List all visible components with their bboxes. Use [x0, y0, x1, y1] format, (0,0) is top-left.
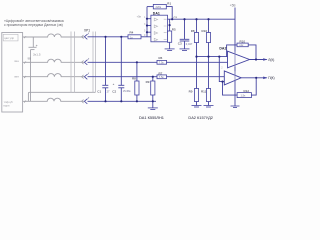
- wire C1 vertical upper: [105, 37, 107, 86]
- pin slash 3: [24, 76, 26, 78]
- svg-text:+: +: [113, 82, 115, 86]
- svg-text:DA2: DA2: [219, 47, 226, 51]
- junction output1-R11: [255, 58, 257, 60]
- ground supply bar 2: [233, 107, 237, 109]
- ground R9 bar 2: [194, 106, 199, 108]
- junction bus-R10: [207, 18, 209, 20]
- junction bus-C3: [183, 18, 185, 20]
- connector pin tick 1: [88, 33, 89, 35]
- junction bus-R8: [195, 18, 197, 20]
- resistor R10: [206, 33, 210, 43]
- inner frame (dial unit): [3, 34, 18, 41]
- junction R1-bus: [171, 18, 173, 20]
- pin slash 4: [24, 101, 26, 103]
- ground R11 bar 2: [206, 106, 211, 108]
- wire DA2.1 output: [250, 59, 267, 61]
- junction DA1 pin 3: [146, 24, 148, 26]
- battery GB1 positive plate: [29, 46, 37, 48]
- svg-text:+5В: +5В: [230, 4, 236, 8]
- ground R11 bar 1: [204, 105, 214, 107]
- wire line3 with choke L3: [23, 74, 84, 77]
- wire C2 vertical upper: [120, 37, 122, 86]
- wire line2 blue segment a: [88, 61, 158, 63]
- svg-text:DA1 К555ЛН1: DA1 К555ЛН1: [139, 115, 164, 120]
- wire R11 feedback right lead: [248, 45, 256, 60]
- ground R3 bar 1: [148, 107, 158, 109]
- wire line3 blue segment b to DA2.2: [167, 76, 225, 78]
- wire C2 vertical lower: [120, 88, 122, 102]
- wire DA1 input bus vertical: [146, 7, 148, 37]
- resistor R1: [153, 4, 166, 8]
- junction line4-C2: [120, 100, 122, 102]
- svg-text:R12: R12: [244, 89, 250, 93]
- junction line2-R2: [136, 61, 138, 63]
- svg-text:R8: R8: [191, 29, 195, 33]
- junction rail-R10: [207, 56, 209, 58]
- svg-text:9В: 9В: [28, 57, 32, 61]
- wire divider column R8-R9: [196, 19, 198, 105]
- svg-text:с прожектором передачи Данных: с прожектором передачи Данных (зв): [4, 23, 63, 27]
- svg-text:220к: 220к: [156, 5, 162, 9]
- svg-text:C2: C2: [112, 89, 116, 93]
- wire line1 blue segment a: [88, 36, 129, 38]
- svg-text:R10: R10: [240, 40, 246, 44]
- svg-text:R1: R1: [167, 1, 171, 5]
- svg-text:+5в: +5в: [137, 15, 142, 19]
- wire line4 blue segment: [88, 100, 157, 102]
- connector XP1 mating contact 3: [82, 75, 84, 79]
- svg-text:П(К): П(К): [268, 76, 274, 80]
- pin slash 1: [24, 36, 26, 38]
- svg-text:лин: лин: [14, 59, 19, 63]
- wire R12 feedback left lead: [223, 82, 238, 96]
- resistor R5: [168, 31, 172, 42]
- ground C3 bar 1: [180, 48, 190, 50]
- svg-text:R7: R7: [159, 71, 163, 75]
- junction line3-R3: [152, 76, 154, 78]
- wire +5V through DA2.2: [234, 71, 236, 80]
- resistor R6: [157, 60, 167, 64]
- wire DA1 pin stub 9: [147, 36, 151, 38]
- output arrow right channel: [263, 77, 267, 80]
- DA1 gate element 4: [154, 38, 166, 41]
- junction line4-R2: [136, 100, 138, 102]
- connector XP1 contact 2: [84, 60, 87, 65]
- ground R3 bar 2: [150, 108, 155, 110]
- op-amp DA2.1: [228, 51, 250, 68]
- battery GB1 negative plate: [31, 49, 35, 51]
- svg-text:DA2 К157УД2: DA2 К157УД2: [188, 115, 213, 120]
- wire C3 bottom lead: [184, 41, 186, 49]
- wire supply bus: [168, 18, 236, 20]
- wire bias rail: [197, 56, 228, 58]
- wire DA1 pin stub 5: [147, 31, 151, 33]
- cable shield screen 2 line b: [95, 32, 97, 93]
- junction output2-R12: [255, 77, 257, 79]
- wire R12 feedback right lead: [251, 78, 256, 95]
- junction DA1 pin 5: [146, 31, 148, 33]
- connector XP1 contact 4: [84, 99, 87, 104]
- wire C3 top lead: [184, 19, 186, 39]
- ground supply bar 1: [231, 105, 240, 107]
- junction DA1 output pin 2: [169, 24, 171, 26]
- capacitor C2 plate top: [118, 84, 124, 86]
- svg-text:0,047: 0,047: [186, 42, 193, 46]
- svg-text:цап упр: цап упр: [4, 36, 14, 40]
- ground R9 bar 1: [192, 105, 202, 107]
- capacitor C3 plate bottom: [180, 40, 190, 42]
- junction line1-C1: [104, 36, 106, 38]
- svg-text:R10: R10: [202, 29, 208, 33]
- wire line3 blue segment a: [88, 76, 158, 78]
- wire bias to DA2.2 input: [219, 57, 224, 82]
- svg-text:Зх1,5: Зх1,5: [33, 53, 41, 57]
- svg-text:R5: R5: [172, 28, 176, 32]
- svg-text:корп: корп: [4, 104, 10, 108]
- DA1 gate element 1: [154, 18, 166, 21]
- ground C3 bar 2: [182, 49, 187, 51]
- connector XP1 contact 1: [84, 34, 87, 39]
- wire DA1 output pin to R5: [169, 19, 171, 31]
- resistor R2 body: [135, 81, 139, 95]
- wire R2 vertical: [136, 62, 138, 101]
- IC DA1: [151, 15, 168, 42]
- wire line1 with choke L1: [23, 34, 84, 37]
- wire DA1 pin stub 1: [147, 18, 151, 20]
- wire R5 bottom lead: [169, 42, 171, 49]
- svg-text:R11: R11: [201, 90, 207, 94]
- svg-text:R4: R4: [130, 31, 134, 35]
- resistor R11 lower body: [206, 89, 210, 102]
- wire DA1 pin stub 3: [147, 25, 151, 27]
- wire C1 vertical lower: [105, 88, 107, 102]
- wire +5V through DA2.1: [234, 52, 236, 68]
- svg-text:лин: лин: [14, 75, 19, 79]
- wire line2 with choke L2: [23, 59, 84, 62]
- resistor R7: [157, 75, 167, 79]
- svg-text:15×63в: 15×63в: [123, 90, 131, 93]
- wire DA2.2 output: [241, 77, 267, 79]
- wire R3 vertical: [152, 77, 154, 108]
- wire R1 right lead down: [166, 7, 172, 20]
- cable shield screen 1 line b: [74, 32, 76, 93]
- wire battery top tap: [32, 37, 34, 47]
- svg-text:XP1: XP1: [84, 29, 90, 33]
- resistor R12 feedback: [237, 93, 251, 98]
- svg-text:R9: R9: [146, 80, 150, 84]
- resistor R3 body: [151, 81, 155, 95]
- connector XP1 mating contact 4: [82, 100, 84, 104]
- svg-text:+: +: [36, 44, 38, 48]
- wire R11 feedback left lead: [227, 45, 237, 57]
- capacitor C3 plate top: [180, 38, 190, 40]
- output arrow left channel: [263, 58, 267, 61]
- DA1 gate element 2: [154, 25, 166, 28]
- connector pin tick 3: [88, 73, 89, 75]
- junction DA1 pin 1: [146, 18, 148, 20]
- pin slash 2: [24, 62, 26, 64]
- resistor R4: [128, 35, 141, 39]
- wire line2 blue segment b to DA2.1: [167, 61, 228, 63]
- cable shield screen 2 line a: [92, 32, 94, 93]
- connector pin tick 4: [88, 97, 89, 99]
- connector XP1 contact 3: [84, 74, 87, 79]
- capacitor C1 plate top: [102, 84, 108, 86]
- svg-text:DA1: DA1: [153, 12, 160, 16]
- svg-text:R8: R8: [132, 77, 136, 81]
- connector XP1 mating contact 2: [82, 61, 84, 65]
- svg-text:C1: C1: [97, 89, 101, 93]
- wire divider column R10-R11: [208, 19, 210, 105]
- wire R1 left lead: [147, 6, 153, 8]
- junction line4-C1: [104, 100, 106, 102]
- ground R5 bar 2: [167, 50, 172, 52]
- telephone set unit box: [2, 33, 23, 113]
- junction rail-R8: [195, 56, 197, 58]
- wire shield bond: [28, 92, 95, 101]
- svg-text:Л(К): Л(К): [268, 58, 274, 62]
- connector XP1 mating contact 1: [82, 35, 84, 39]
- wire battery negative drop: [30, 50, 32, 102]
- junction line1-C2: [120, 36, 122, 38]
- svg-text:C3: C3: [178, 41, 182, 45]
- svg-text:R6: R6: [159, 56, 163, 60]
- ground R5 bar 1: [165, 48, 175, 50]
- wire line4 with choke L4: [23, 98, 84, 101]
- svg-text:+5в: +5в: [173, 15, 178, 19]
- svg-text:R9: R9: [189, 90, 193, 94]
- junction rail-bias drop: [218, 56, 220, 58]
- resistor R9 body: [194, 89, 198, 102]
- junction line4-R3: [152, 100, 154, 102]
- wire +5V supply down: [234, 8, 236, 107]
- cable shield screen 1 line a: [70, 32, 72, 93]
- connector pin tick 2: [88, 58, 89, 60]
- pin slash marks on box edge: [24, 36, 26, 102]
- junction DA2.2 input-R12: [221, 81, 223, 83]
- capacitor C2 plate bottom: [118, 87, 124, 89]
- resistor R11 feedback: [237, 43, 248, 47]
- op-amp DA2.2: [224, 71, 241, 85]
- capacitor C1 plate bottom: [102, 87, 108, 89]
- wire line1 blue segment b to DA1: [141, 36, 147, 38]
- resistor R8: [194, 33, 198, 43]
- DA1 gate element 3: [154, 32, 166, 35]
